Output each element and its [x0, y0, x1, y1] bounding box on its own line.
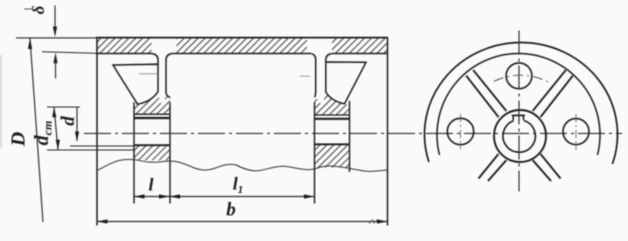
- right spoke neck left edge with fillets: [312, 54, 316, 97]
- right hub block hatching upper: [315, 92, 350, 115]
- l left arrowhead: [134, 194, 145, 198]
- faint guide dash near right funnel: [300, 75, 310, 77]
- svg-text:δ: δ: [29, 5, 48, 14]
- inner rim circle (bottom faded away): [437, 53, 600, 155]
- dimension b line: [97, 221, 388, 223]
- b right arrowhead: [377, 219, 388, 223]
- dimension d_st line: [54, 107, 58, 150]
- delta upper arrowhead: [53, 27, 57, 38]
- vertical center line of front view: [518, 31, 520, 192]
- right hub keyway top line: [315, 114, 350, 116]
- rim top extension line (to dimension D and delta): [16, 37, 96, 39]
- left hub right face (also l / l1 extension line): [169, 102, 171, 203]
- left spoke neck left edge with top fillet: [153, 54, 159, 65]
- hub outer circle: [494, 110, 546, 162]
- pitch circle arc through top hole (dash-dot): [494, 75, 549, 82]
- b left arrowhead: [97, 219, 108, 223]
- right hole vertical center dash: [575, 114, 577, 150]
- b tick marks near right arrow: [369, 220, 378, 224]
- right lightening hole: [563, 119, 589, 145]
- keyway slot: [513, 116, 523, 121]
- upper-left rib edge 2: [466, 76, 498, 117]
- delta lower arrow line: [55, 58, 57, 79]
- rim hatch (section of pulley rim, with gaps above spoke necks): [96, 38, 388, 54]
- svg-text:b: b: [226, 200, 236, 221]
- scan artifact left edge: [0, 55, 2, 148]
- lower-left rib edge 1: [479, 154, 499, 179]
- upper-right rib edge 2: [541, 76, 573, 117]
- left spoke neck right edge with fillets: [166, 54, 172, 98]
- dimension l1 line: [170, 196, 315, 198]
- svg-text:d: d: [58, 116, 79, 126]
- left hole vertical center dash: [460, 114, 462, 149]
- right spoke funnel: [326, 62, 366, 104]
- delta lower arrowhead: [53, 53, 57, 64]
- left lightening hole: [447, 118, 473, 144]
- d_st bottom extension line: [47, 149, 134, 151]
- upper-right rib edge 1: [533, 70, 566, 111]
- rim top edge line: [96, 37, 388, 39]
- d bottom extension line: [70, 145, 134, 147]
- faint guide dash between left funnel and neck: [139, 73, 157, 75]
- lower-left rib edge 2: [488, 160, 506, 181]
- d bottom arrowhead: [75, 132, 79, 142]
- rim bottom edge line (broken at spoke necks): [96, 53, 388, 55]
- right face of pulley (also b extension): [387, 38, 389, 226]
- left face of pulley (also b extension): [96, 38, 98, 226]
- d_st bottom arrowhead: [56, 140, 60, 150]
- right hub left face (also l1 extension line): [314, 102, 316, 204]
- delta top tick: [24, 8, 32, 10]
- axis center line (dash-dot) across both views: [84, 132, 622, 134]
- d_st top extension line: [47, 106, 80, 108]
- left hub keyway top line: [134, 113, 170, 115]
- lower-right rib edge 1: [541, 154, 561, 179]
- right spoke neck right edge with fillets: [326, 54, 332, 63]
- left hub block hatching lower: [134, 146, 170, 161]
- left hub left face (also l extension line): [133, 102, 135, 203]
- left spoke funnel (spoke rotated into plane): [113, 64, 158, 104]
- left hub keyway bottom / bore top line: [134, 117, 170, 119]
- upper-left rib edge 1: [473, 70, 506, 111]
- rim bottom extension line (for delta lower arrow): [42, 52, 96, 54]
- wavy break line: [97, 159, 387, 171]
- dimension D arrow: [28, 38, 32, 49]
- l right arrowhead: [159, 194, 170, 198]
- svg-text:D: D: [8, 132, 30, 147]
- outer rim circle (bottom faded away): [424, 43, 617, 164]
- l1 right arrowhead: [304, 194, 315, 198]
- dimension D line (slanted): [30, 39, 43, 223]
- right hub block hatching lower: [315, 145, 350, 168]
- left hub block hatching upper: [134, 92, 170, 114]
- bore circle with keyway gap: [503, 121, 535, 153]
- lower-right rib edge 2: [533, 160, 551, 181]
- right hub right face: [349, 101, 351, 172]
- d_st top arrowhead: [52, 107, 56, 117]
- svg-text:l: l: [148, 175, 153, 195]
- delta upper arrow line: [54, 6, 56, 32]
- dimension d line: [76, 107, 78, 142]
- right hub keyway bottom / bore top line: [315, 118, 350, 120]
- left hub bore bottom line: [134, 144, 170, 146]
- l1 left arrowhead: [170, 194, 181, 198]
- right hub bore bottom line: [315, 143, 350, 145]
- top lightening hole: [506, 63, 532, 89]
- dimension l line: [134, 196, 170, 198]
